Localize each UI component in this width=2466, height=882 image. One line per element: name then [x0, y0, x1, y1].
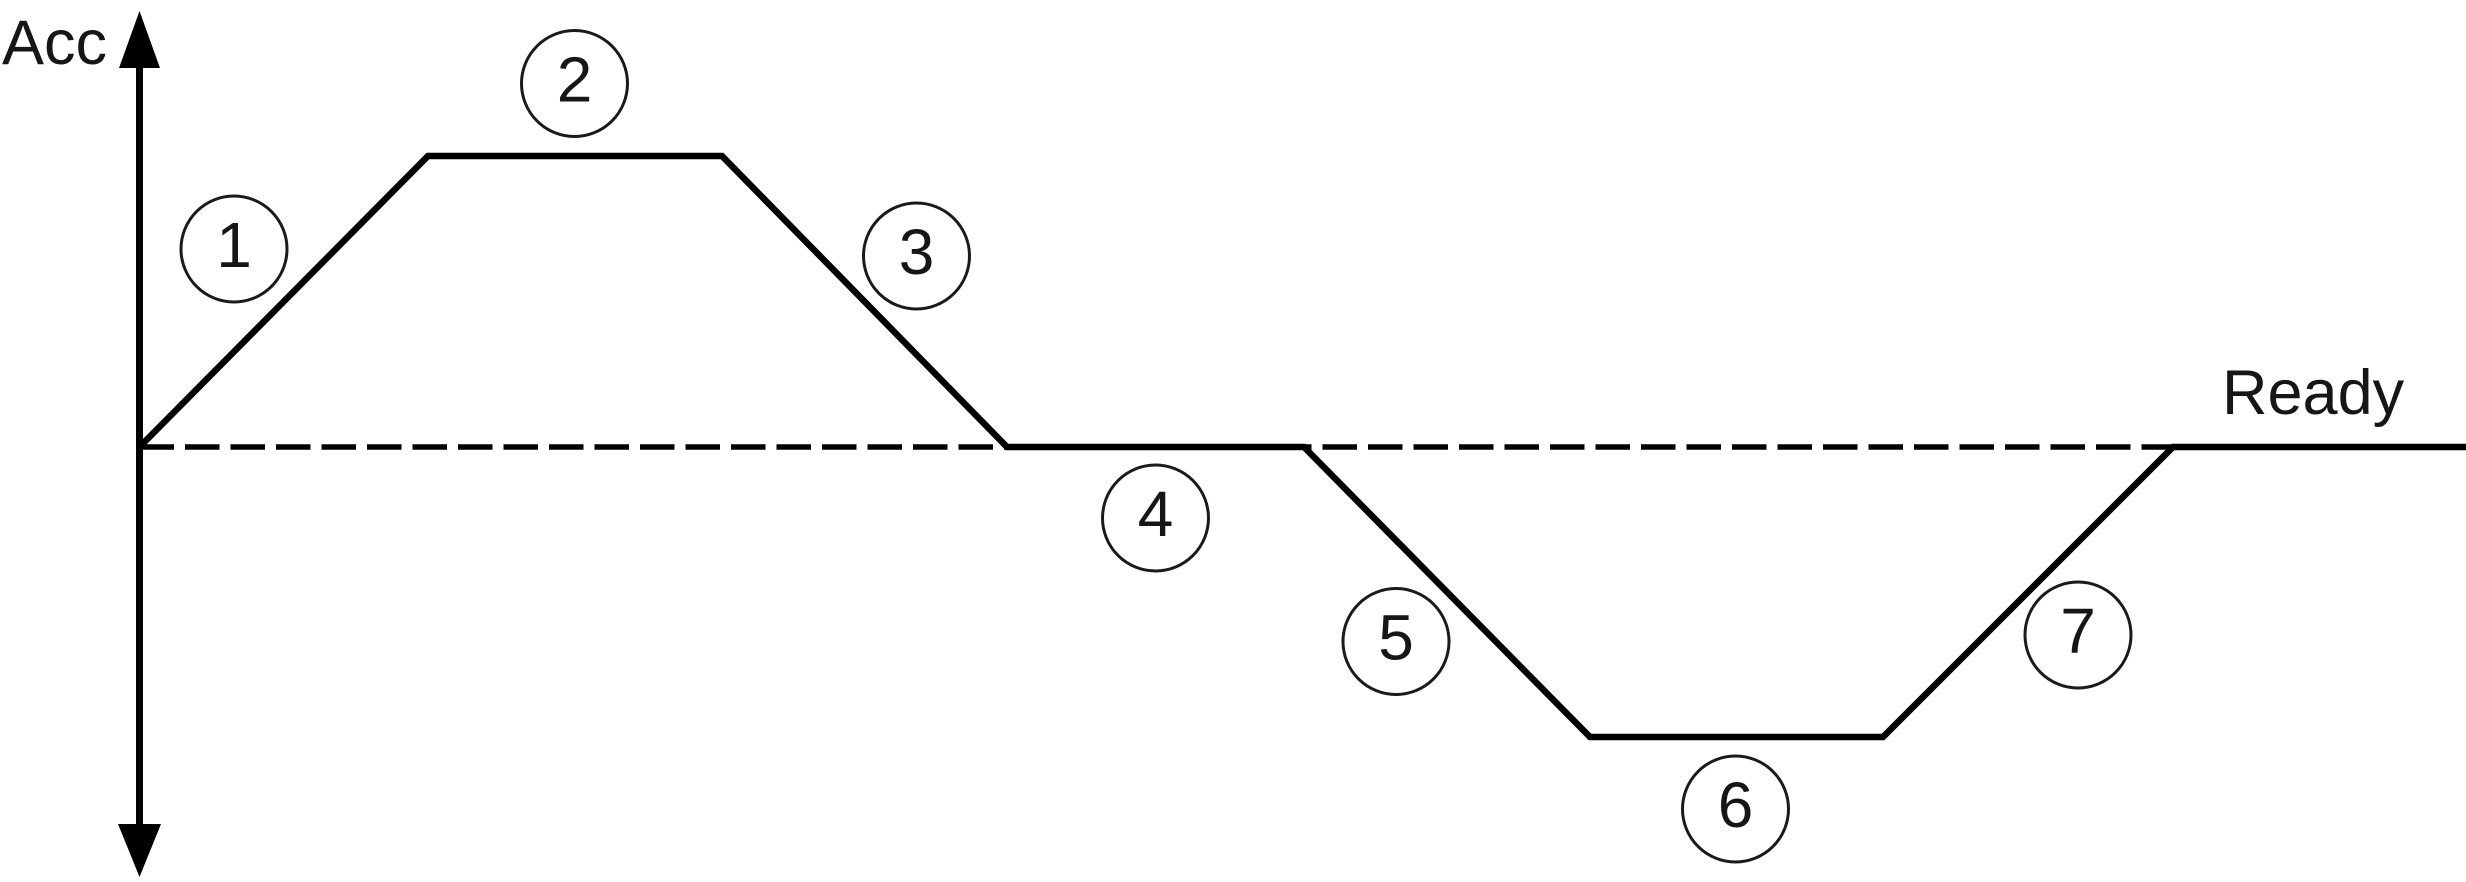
axis arrowhead bottom	[118, 824, 161, 877]
acceleration profile curve (phases 1-7)	[140, 156, 2466, 737]
svg-text:Acc: Acc	[2, 8, 107, 78]
svg-text:7: 7	[2060, 595, 2096, 667]
svg-text:5: 5	[1378, 602, 1414, 674]
circled number 1	[181, 196, 287, 302]
svg-text:2: 2	[557, 44, 593, 116]
svg-text:3: 3	[899, 216, 935, 288]
vertical axis (Acc axis)	[136, 62, 143, 830]
svg-text:1: 1	[216, 209, 252, 281]
axis arrowhead top	[119, 11, 160, 68]
circled number 6	[1683, 756, 1789, 862]
circled number 4	[1103, 465, 1209, 571]
circled number 5	[1343, 589, 1449, 695]
svg-text:6: 6	[1718, 769, 1754, 841]
dashed zero line (Ready level)	[140, 444, 2201, 450]
svg-text:Ready: Ready	[2222, 358, 2405, 428]
svg-text:4: 4	[1138, 478, 1174, 550]
circled number 7	[2025, 582, 2131, 688]
circled number 3	[864, 203, 970, 309]
circled number 2	[522, 31, 628, 137]
